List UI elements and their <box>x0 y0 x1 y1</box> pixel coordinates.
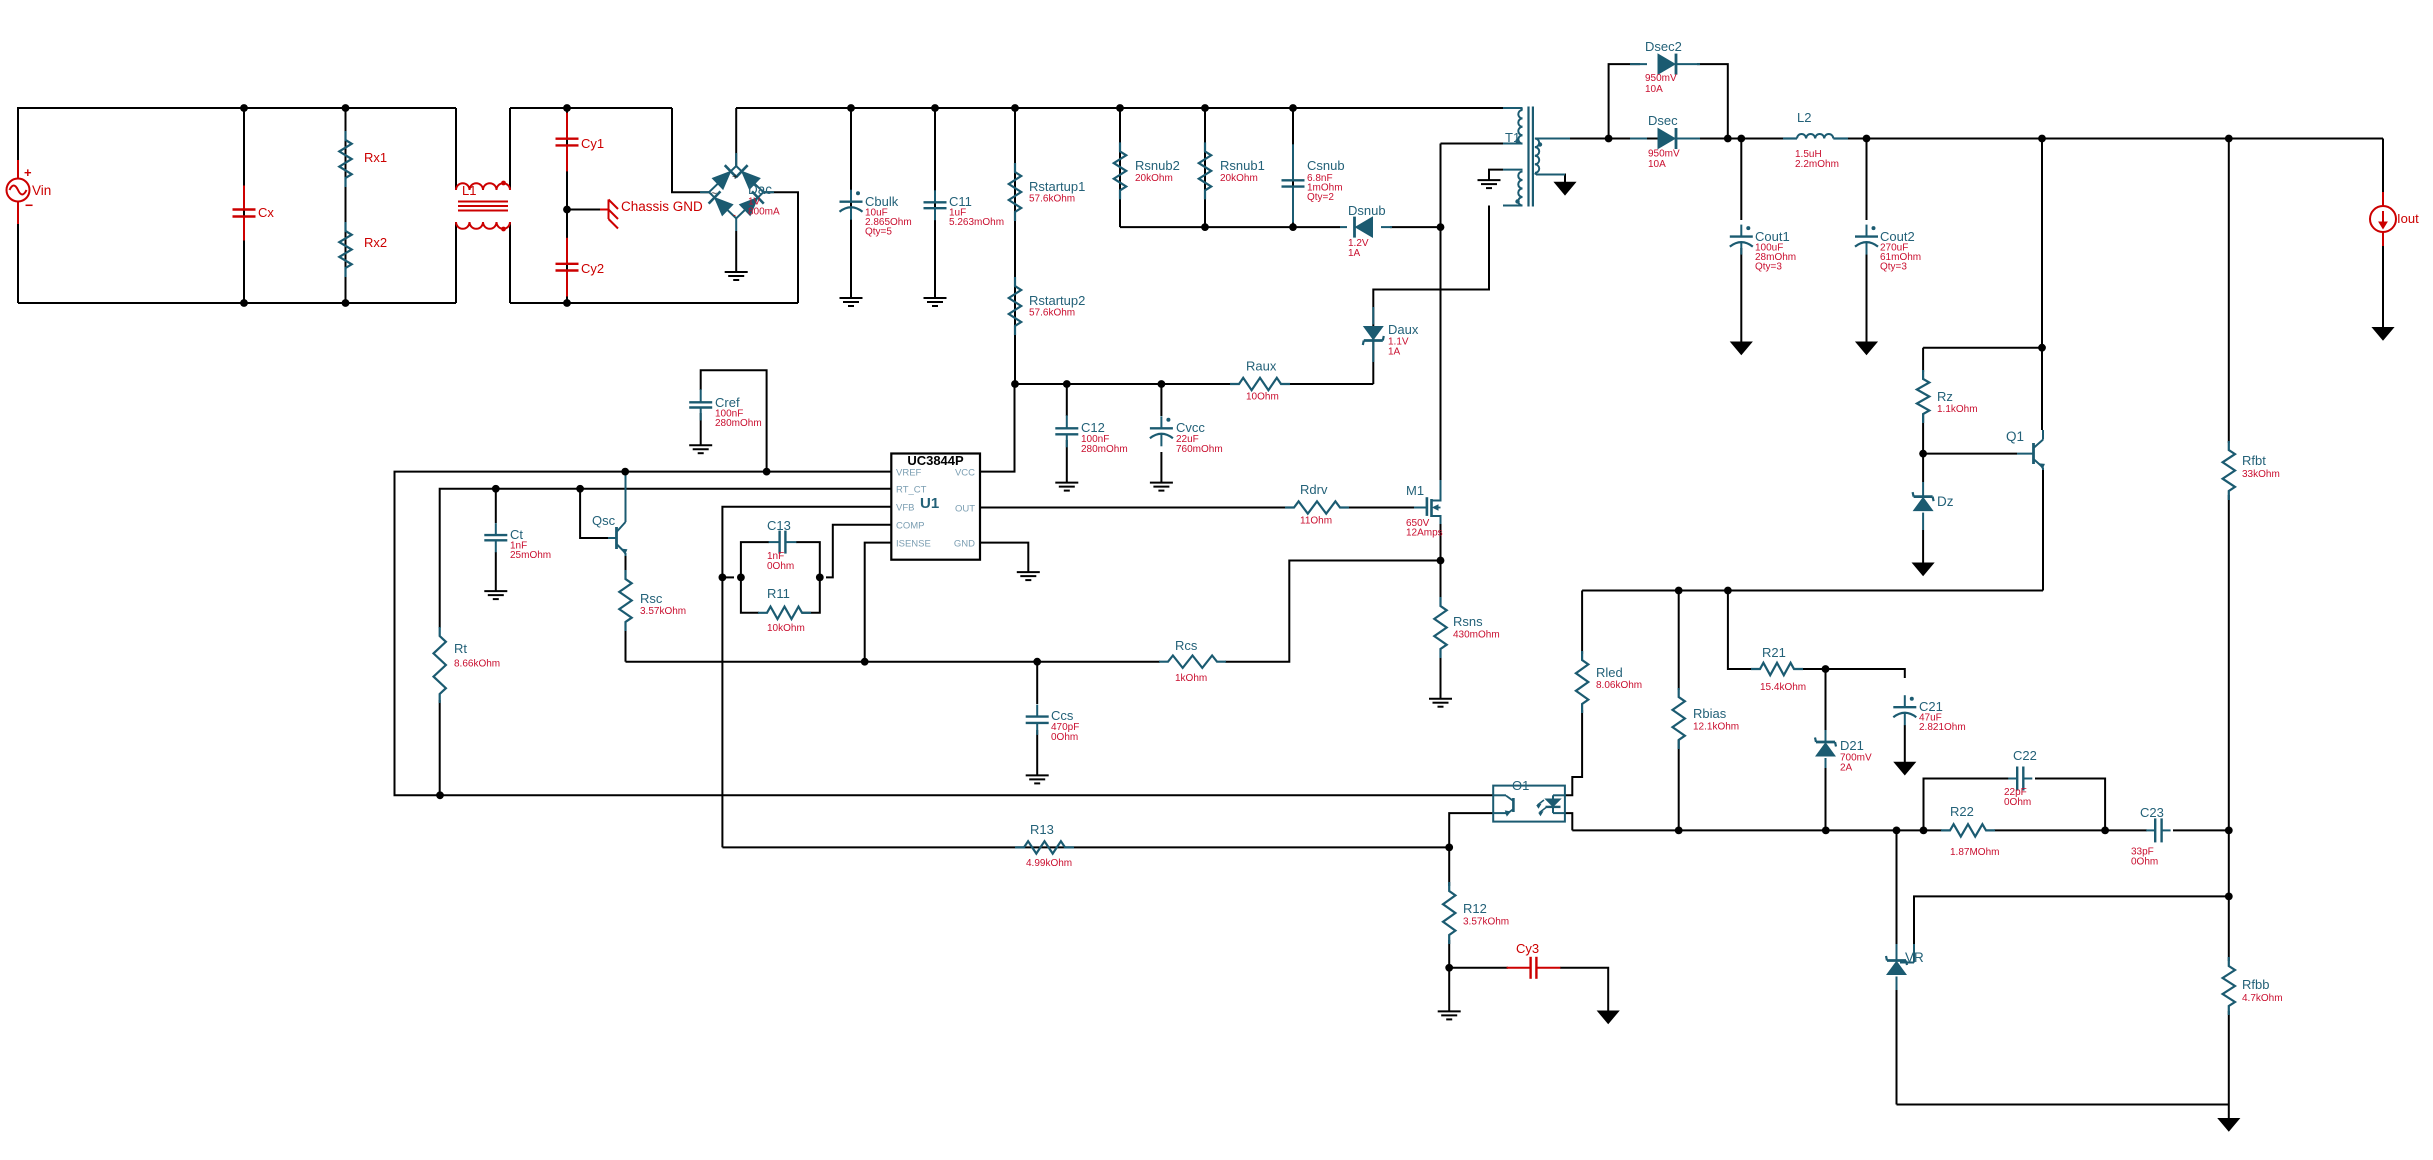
svg-text:ISENSE: ISENSE <box>896 539 931 550</box>
svg-text:1A: 1A <box>1348 248 1361 259</box>
svg-text:−: − <box>25 197 33 213</box>
svg-text:Qty=3: Qty=3 <box>1755 262 1782 273</box>
wire Daux top jog <box>1373 206 1489 308</box>
resistor Rdrv <box>1285 482 1349 527</box>
resistor R11 <box>741 577 820 634</box>
svg-text:12.1kOhm: 12.1kOhm <box>1693 722 1739 733</box>
wire Dsec2 right <box>1697 64 1728 138</box>
wire RT_CT line <box>440 489 891 628</box>
svg-text:1A: 1A <box>1388 347 1401 358</box>
diode VR shunt reference <box>1886 944 1924 990</box>
diode Dsec <box>1630 113 1700 170</box>
resistor Rx2 <box>339 222 387 277</box>
wire C21 ground <box>1894 725 1915 775</box>
wire GND pin <box>980 543 1040 581</box>
svg-text:15.4kOhm: 15.4kOhm <box>1760 682 1806 693</box>
svg-text:Chassis GND: Chassis GND <box>621 199 703 214</box>
resistor Rx1 <box>339 131 387 187</box>
svg-text:VR: VR <box>1905 950 1924 965</box>
wire C22 branch <box>1924 779 2010 831</box>
resistor Rbias <box>1673 688 1740 749</box>
svg-text:~: ~ <box>711 188 717 200</box>
resistor Rled <box>1576 651 1642 713</box>
wire Rt bottom <box>439 700 441 795</box>
wire Dsec2 branch <box>1609 64 1640 138</box>
inductor L1 common-mode choke <box>456 181 510 232</box>
svg-text:GND: GND <box>954 539 975 550</box>
svg-text:950mV: 950mV <box>1648 149 1680 160</box>
svg-text:0Ohm: 0Ohm <box>2131 857 2158 868</box>
svg-text:Dz: Dz <box>1937 494 1954 509</box>
wire Cout2 branch <box>1856 139 1877 355</box>
wire R13 line <box>722 846 1449 848</box>
svg-text:C12: C12 <box>1081 420 1105 435</box>
wire VFB rail <box>722 507 891 848</box>
op-amp U1 UC3844P controller <box>891 453 980 560</box>
svg-text:C22: C22 <box>2013 748 2037 763</box>
resistor Rstartup2 <box>1009 277 1086 335</box>
svg-text:Qty=2: Qty=2 <box>1307 192 1334 203</box>
capacitor Cout2 <box>1855 225 1921 273</box>
svg-text:3.57kOhm: 3.57kOhm <box>1463 917 1509 928</box>
svg-text:430mOhm: 430mOhm <box>1453 630 1500 641</box>
svg-text:Raux: Raux <box>1246 359 1277 374</box>
svg-text:Rsnub1: Rsnub1 <box>1220 158 1265 173</box>
svg-text:Rsc: Rsc <box>640 591 663 606</box>
svg-text:11Ohm: 11Ohm <box>1300 516 1332 527</box>
svg-text:2.821Ohm: 2.821Ohm <box>1919 722 1966 733</box>
svg-text:Dsnub: Dsnub <box>1348 203 1386 218</box>
svg-text:C23: C23 <box>2140 805 2164 820</box>
svg-text:4.7kOhm: 4.7kOhm <box>2242 993 2283 1004</box>
svg-text:Dsec: Dsec <box>1648 113 1678 128</box>
wire Raux right <box>1289 383 1373 385</box>
wire Cbulk branch <box>840 108 863 306</box>
wire combo left stub <box>722 576 734 578</box>
transistor Q1 <box>2006 348 2044 470</box>
wire VR bottom <box>1896 990 1898 1105</box>
svg-text:Q1: Q1 <box>2006 429 2024 444</box>
svg-text:0Ohm: 0Ohm <box>767 561 794 572</box>
svg-text:Daux: Daux <box>1388 322 1419 337</box>
transistor Qsc <box>592 472 627 556</box>
svg-text:Qsc: Qsc <box>592 513 616 528</box>
svg-text:Cy3: Cy3 <box>1516 941 1539 956</box>
svg-text:2.2mOhm: 2.2mOhm <box>1795 159 1839 170</box>
svg-text:RT_CT: RT_CT <box>896 485 927 496</box>
resistor Rfbb <box>2223 957 2283 1015</box>
capacitor Cx <box>233 186 275 241</box>
svg-text:R22: R22 <box>1950 804 1974 819</box>
svg-text:3.57kOhm: 3.57kOhm <box>640 606 686 617</box>
wire loop to bridge <box>672 108 709 192</box>
svg-text:Dac: Dac <box>748 182 772 197</box>
diode Dz <box>1913 482 1954 530</box>
wire Rcs right <box>1225 561 1441 662</box>
diode Daux <box>1363 307 1419 362</box>
svg-text:M1: M1 <box>1406 483 1424 498</box>
svg-text:Rsnub2: Rsnub2 <box>1135 158 1180 173</box>
wire C23 right <box>2173 829 2229 831</box>
svg-text:950mV: 950mV <box>1645 73 1677 84</box>
svg-text:Rt: Rt <box>454 641 467 656</box>
svg-text:+: + <box>24 165 32 180</box>
svg-text:Rfbt: Rfbt <box>2242 453 2266 468</box>
wire sense rail <box>1582 590 2043 592</box>
svg-text:Rstartup2: Rstartup2 <box>1029 293 1085 308</box>
wire Iout branch <box>2382 139 2384 193</box>
svg-text:25mOhm: 25mOhm <box>510 550 551 561</box>
svg-text:20kOhm: 20kOhm <box>1135 173 1173 184</box>
wire second loop bottom <box>510 302 798 304</box>
resistor R22 <box>1941 804 1999 858</box>
wire Q1 emitter down <box>2042 470 2044 591</box>
capacitor C22 <box>2004 748 2037 808</box>
wire Rsc bottom <box>625 628 627 662</box>
svg-text:Rstartup1: Rstartup1 <box>1029 179 1085 194</box>
svg-text:VREF: VREF <box>896 468 922 479</box>
svg-text:VFB: VFB <box>896 503 914 514</box>
capacitor Ct <box>484 523 551 561</box>
wire ISENSE jog <box>865 543 891 662</box>
wire Cy3 line <box>1449 967 1508 969</box>
wire R12 branch <box>1448 847 1450 967</box>
wire choke right stubs <box>509 108 511 303</box>
capacitor Ccs <box>1026 705 1080 743</box>
capacitor C23 <box>2131 805 2171 868</box>
resistor Rstartup1 <box>1009 163 1086 221</box>
svg-text:D21: D21 <box>1840 738 1864 753</box>
wire R22 to C23 node <box>1994 829 2147 831</box>
resistor Rcs <box>1159 638 1226 684</box>
svg-text:Cy2: Cy2 <box>581 261 604 276</box>
wire Rz to node <box>1922 414 1924 454</box>
capacitor Cbulk <box>840 190 912 238</box>
wire Dz branch <box>1922 454 1924 482</box>
wire OUT to Rdrv <box>980 507 1289 509</box>
wire VCC <box>980 384 1015 472</box>
wire chassis stub <box>567 209 600 211</box>
resistor Rfbt <box>2223 441 2280 500</box>
wire opto cathode jog <box>1565 813 1572 830</box>
svg-text:2A: 2A <box>1840 763 1853 774</box>
svg-text:O1: O1 <box>1512 778 1529 793</box>
wire R21 branch <box>1728 591 1752 670</box>
diode bridge Dac <box>700 153 780 231</box>
optocoupler O1 <box>1493 778 1565 822</box>
svg-text:C13: C13 <box>767 518 791 533</box>
svg-text:10A: 10A <box>1648 159 1666 170</box>
svg-text:Vin: Vin <box>32 183 51 198</box>
svg-text:VCC: VCC <box>955 468 975 479</box>
svg-text:4.99kOhm: 4.99kOhm <box>1026 858 1072 869</box>
wire HV top rail <box>736 107 1503 109</box>
capacitor C12 <box>1055 415 1127 455</box>
wire Rbias branch <box>1678 591 1680 831</box>
svg-text:Ccs: Ccs <box>1051 708 1074 723</box>
wire opto emitter jog <box>1449 813 1493 847</box>
chassis ground <box>600 199 703 229</box>
svg-text:Rbias: Rbias <box>1693 706 1727 721</box>
wire Rz top link <box>1923 348 2042 372</box>
wire C21 corner <box>1826 669 1905 678</box>
svg-text:Iout: Iout <box>2397 211 2419 226</box>
wire Qsc base path <box>580 489 608 538</box>
wire secondary return <box>1536 175 1576 195</box>
capacitor C21 <box>1893 695 1965 733</box>
wire R12 ground <box>1438 968 1461 1020</box>
svg-text:R13: R13 <box>1030 822 1054 837</box>
wire Rstartup branch <box>1014 108 1016 384</box>
svg-text:57.6kOhm: 57.6kOhm <box>1029 194 1075 205</box>
wire R21 to D21 <box>1802 668 1826 670</box>
svg-text:20kOhm: 20kOhm <box>1220 173 1258 184</box>
voltage source Vin <box>7 160 52 224</box>
wire M1 source to Rsns <box>1440 524 1442 606</box>
capacitor Cvcc <box>1150 416 1223 455</box>
diode D21 <box>1815 730 1872 774</box>
transformer T1 <box>1441 107 1571 207</box>
capacitor Cout1 <box>1730 225 1796 273</box>
svg-text:R12: R12 <box>1463 901 1487 916</box>
svg-text:Rcs: Rcs <box>1175 638 1198 653</box>
wire C12 branch <box>1055 384 1078 491</box>
inductor L2 <box>1783 110 1848 170</box>
svg-text:Qty=5: Qty=5 <box>865 227 892 238</box>
svg-text:1.1kOhm: 1.1kOhm <box>1937 404 1978 415</box>
wire Cref loop <box>701 370 767 471</box>
wire Ct branch <box>484 489 507 599</box>
capacitor Cy1 <box>556 113 605 172</box>
svg-text:Csnub: Csnub <box>1307 158 1345 173</box>
resistor R13 <box>1015 822 1074 869</box>
svg-text:280mOhm: 280mOhm <box>1081 444 1128 455</box>
svg-text:OUT: OUT <box>955 504 975 515</box>
wire feedback line <box>1572 829 1942 831</box>
wire Dsnub to drain <box>1390 226 1441 228</box>
wire Cx branch <box>243 108 245 303</box>
wire aux rail <box>1015 383 1232 385</box>
wire C22 right <box>2035 779 2105 831</box>
svg-text:R11: R11 <box>767 586 790 601</box>
wire VR vertical <box>1896 830 1898 944</box>
wire Rsnub2 branch <box>1119 108 1121 227</box>
wire input loop bottom rail <box>18 224 456 303</box>
wire C11 branch <box>924 108 947 306</box>
svg-text:Rz: Rz <box>1937 389 1953 404</box>
capacitor C11 <box>924 190 1005 228</box>
wire second loop top <box>510 107 672 109</box>
wire Cy3 right <box>1560 968 1619 1024</box>
wire Rdrv to gate <box>1348 507 1414 509</box>
wire Dz to ground <box>1913 530 1934 576</box>
svg-text:COMP: COMP <box>896 521 925 532</box>
wire choke left stubs <box>455 108 457 303</box>
svg-text:10A: 10A <box>1645 84 1663 95</box>
svg-text:T1: T1 <box>1505 130 1520 145</box>
capacitor Cy2 <box>556 238 605 297</box>
wire Cvcc branch <box>1150 384 1173 491</box>
wire Q1 collector <box>2041 139 2043 348</box>
wire VR branch jog <box>1900 896 2229 962</box>
svg-text:R21: R21 <box>1762 645 1786 660</box>
ground bridge <box>725 231 748 280</box>
wire Rfbb bottom <box>2218 1011 2239 1131</box>
wire Rfbt vertical <box>2228 139 2230 444</box>
wire Qsc emitter down <box>625 556 627 571</box>
svg-text:760mOhm: 760mOhm <box>1176 444 1223 455</box>
wire primary return <box>1440 144 1442 481</box>
wire Daux branch <box>1372 307 1374 384</box>
resistor R12 <box>1443 882 1509 944</box>
resistor Rsns <box>1434 597 1499 658</box>
svg-text:10kOhm: 10kOhm <box>767 623 805 634</box>
svg-text:12Amps: 12Amps <box>1406 528 1443 539</box>
wire input loop top rail <box>18 108 456 160</box>
svg-text:1.87MOhm: 1.87MOhm <box>1950 847 1999 858</box>
wire Rfbt to fb <box>2228 495 2230 961</box>
svg-text:-: - <box>733 210 736 220</box>
wire bottom rail <box>1897 1104 2229 1106</box>
wire Rsns to ground <box>1429 649 1452 707</box>
current source Iout <box>2370 192 2419 246</box>
capacitor Cy3 <box>1507 941 1561 979</box>
svg-text:8.66kOhm: 8.66kOhm <box>454 659 500 670</box>
svg-text:Cx: Cx <box>258 205 274 220</box>
wire Cy branch <box>566 108 568 303</box>
svg-text:Dsec2: Dsec2 <box>1645 39 1682 54</box>
resistor Rsnub1 <box>1199 142 1265 199</box>
svg-text:Qty=3: Qty=3 <box>1880 262 1907 273</box>
resistor Rsnub2 <box>1114 142 1180 199</box>
svg-text:Cvcc: Cvcc <box>1176 420 1205 435</box>
svg-text:Rdrv: Rdrv <box>1300 482 1328 497</box>
svg-text:0Ohm: 0Ohm <box>2004 797 2031 808</box>
resistor Rz <box>1917 370 1978 423</box>
svg-text:5.263mOhm: 5.263mOhm <box>949 217 1004 228</box>
wire VREF rail <box>395 472 1494 796</box>
wire Rled top <box>1581 591 1583 655</box>
transistor M1 MOSFET <box>1406 480 1443 539</box>
svg-text:Rx1: Rx1 <box>364 150 387 165</box>
wire bridge top to rail <box>735 108 737 166</box>
svg-text:33kOhm: 33kOhm <box>2242 469 2280 480</box>
resistor Raux <box>1230 359 1290 403</box>
wire bridge right to bottom <box>763 192 798 303</box>
svg-text:L2: L2 <box>1797 110 1811 125</box>
wire Rsnub1 branch <box>1204 108 1206 227</box>
wire snubber rail <box>1120 226 1340 228</box>
svg-text:0Ohm: 0Ohm <box>1051 732 1078 743</box>
svg-text:Cy1: Cy1 <box>581 136 604 151</box>
svg-text:Rsns: Rsns <box>1453 614 1483 629</box>
diode Dsnub <box>1340 203 1392 259</box>
svg-text:1kOhm: 1kOhm <box>1175 673 1207 684</box>
svg-text:Rled: Rled <box>1596 665 1623 680</box>
wire secondary out <box>1537 138 2383 140</box>
wire Q1 base wire <box>1923 453 2017 455</box>
wire current sense rail <box>626 661 1161 663</box>
svg-text:10Ohm: 10Ohm <box>1246 392 1279 403</box>
wire Rled bottom jog <box>1565 710 1582 795</box>
svg-text:+: + <box>732 171 738 183</box>
svg-text:Rx2: Rx2 <box>364 235 387 250</box>
svg-text:800mA: 800mA <box>748 207 780 218</box>
wire Iout to ground <box>2373 246 2394 340</box>
capacitor Csnub <box>1282 144 1345 222</box>
svg-text:280mOhm: 280mOhm <box>715 418 762 429</box>
resistor Rt <box>434 627 501 703</box>
svg-text:Rfbb: Rfbb <box>2242 977 2269 992</box>
resistor R21 <box>1751 645 1806 693</box>
svg-text:8.06kOhm: 8.06kOhm <box>1596 680 1642 691</box>
wire COMP jog <box>826 525 891 578</box>
capacitor Cref <box>689 389 761 429</box>
svg-text:L1: L1 <box>462 183 476 198</box>
svg-text:UC3844P: UC3844P <box>907 453 964 468</box>
wire D21 branch <box>1825 669 1827 830</box>
svg-text:U1: U1 <box>920 495 939 512</box>
wire Cref ground <box>689 413 712 453</box>
svg-text:57.6kOhm: 57.6kOhm <box>1029 308 1075 319</box>
wire Ccs branch <box>1026 662 1049 784</box>
wire Cout1 branch <box>1731 139 1752 355</box>
capacitor C13 <box>741 518 820 577</box>
wire Rx branch <box>345 108 347 303</box>
diode Dsec2 <box>1630 39 1700 95</box>
wire aux winding top <box>1478 170 1504 189</box>
wire Csnub branch <box>1292 108 1294 227</box>
resistor Rsc <box>619 570 686 631</box>
